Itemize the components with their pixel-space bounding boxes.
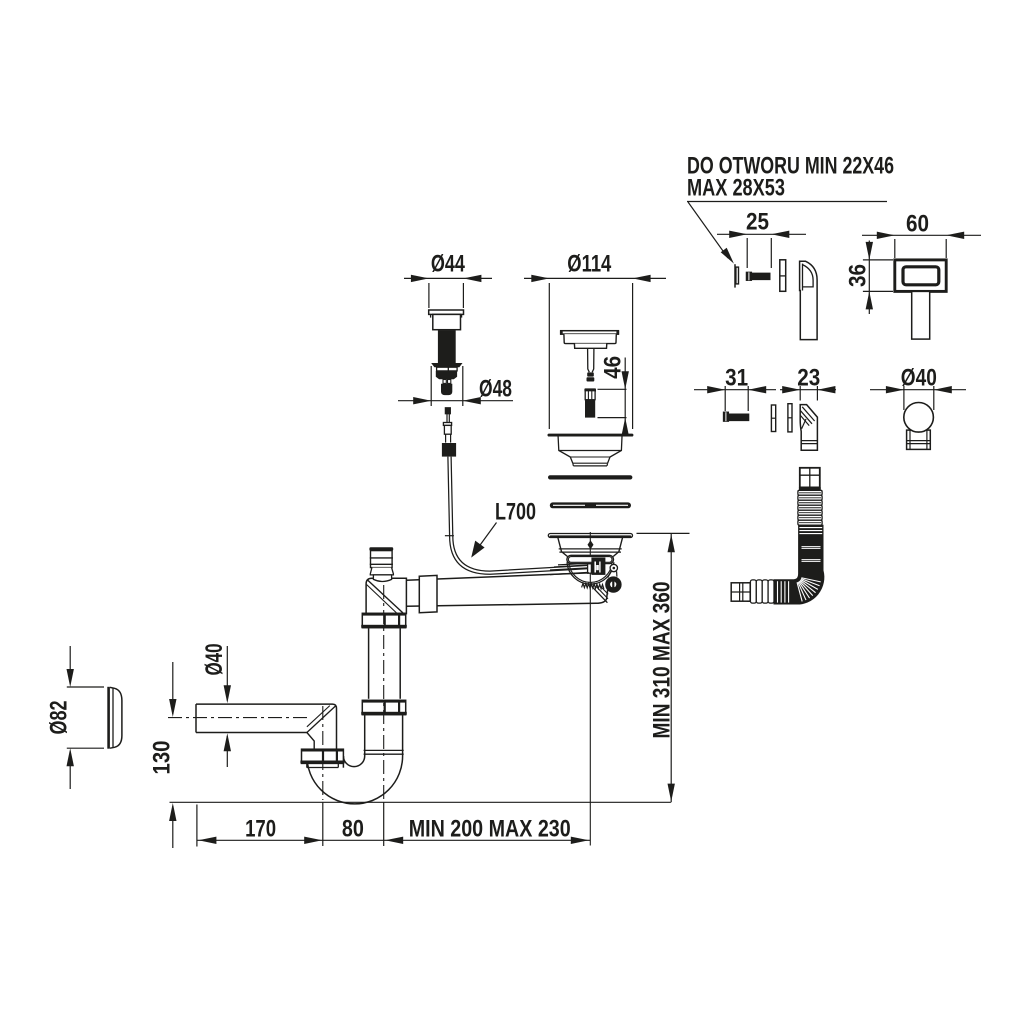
dimension Ø48 (knob flange) bbox=[398, 366, 513, 406]
svg-text:170: 170 bbox=[245, 815, 276, 842]
bevelled washer disc bbox=[550, 503, 630, 508]
strainer centreline bbox=[589, 532, 591, 846]
svg-text:46: 46 bbox=[600, 356, 627, 379]
overflow gasket plate bbox=[780, 260, 786, 292]
svg-text:Ø82: Ø82 bbox=[46, 701, 73, 735]
overflow elbow cover bbox=[800, 261, 818, 339]
upper elbow body bbox=[366, 578, 406, 613]
svg-text:31: 31 bbox=[725, 364, 748, 391]
overflow bezel (60x36) bbox=[895, 260, 946, 292]
strainer lower cup bbox=[567, 562, 614, 584]
svg-text:23: 23 bbox=[797, 364, 820, 391]
baseline bbox=[170, 801, 671, 803]
label L700 with leader arrow bbox=[471, 498, 536, 557]
cable end fitting below knob bbox=[442, 408, 456, 457]
dimension 46 (plug screw) bbox=[598, 356, 629, 436]
drain plug (exploded) bbox=[560, 330, 619, 381]
svg-text:MIN 310 MAX 360: MIN 310 MAX 360 bbox=[649, 582, 676, 739]
outlet pipe (tapered) bbox=[406, 573, 608, 606]
svg-text:Ø48: Ø48 bbox=[479, 376, 512, 403]
sealing plate bbox=[788, 404, 792, 432]
dimension MIN 310 MAX 360 bbox=[637, 533, 690, 802]
lever pivot bbox=[608, 564, 618, 577]
flexible corrugated overflow hose bbox=[731, 468, 824, 604]
svg-text:Ø44: Ø44 bbox=[431, 250, 465, 277]
leader line from note to overflow washer bbox=[687, 202, 887, 264]
svg-text:Ø40: Ø40 bbox=[201, 644, 228, 676]
note: DO OTWORU MIN 22X46 / MAX 28X53 bbox=[687, 153, 894, 202]
lower elbow cut + hatching bbox=[307, 706, 336, 733]
dimension Ø40 (hose end) bbox=[870, 364, 966, 410]
trap inlet nut bbox=[300, 749, 344, 767]
U-trap bend bbox=[307, 715, 404, 804]
strainer body (exploded) bbox=[548, 434, 634, 466]
dimension 36 (overflow bezel height) bbox=[845, 241, 894, 315]
lever ball knob bbox=[605, 576, 621, 592]
plug position diamond bbox=[588, 540, 594, 549]
overflow bolt bbox=[746, 272, 770, 280]
svg-text:L700: L700 bbox=[495, 498, 536, 525]
svg-text:Ø40: Ø40 bbox=[901, 364, 937, 391]
overflow bezel stem bbox=[912, 291, 930, 339]
lower coupling nut bbox=[361, 700, 407, 714]
svg-text:25: 25 bbox=[746, 209, 769, 236]
svg-text:MIN 200 MAX 230: MIN 200 MAX 230 bbox=[409, 815, 571, 842]
overflow hose elbow piece 23 bbox=[800, 405, 817, 451]
dishwasher inlet port bbox=[369, 547, 393, 581]
strainer bail bracket bbox=[567, 555, 614, 563]
trap centrelines extended bbox=[323, 585, 384, 846]
cable anchor block bbox=[588, 558, 606, 575]
upper coupling nut bbox=[361, 613, 407, 627]
flat gasket disc bbox=[549, 476, 632, 479]
bottom dimension line 170 / 80 / MIN 200 MAX 230 bbox=[197, 805, 590, 847]
hose outlet Ø40 (circle + sleeve) bbox=[904, 403, 934, 450]
plug screw 46 bbox=[584, 388, 596, 417]
overflow washer plate bbox=[735, 264, 739, 287]
dimension Ø44 (knob cap) bbox=[404, 250, 492, 308]
mounting screw 31 bbox=[724, 412, 749, 421]
svg-text:36: 36 bbox=[845, 264, 872, 287]
svg-text:MAX 28X53: MAX 28X53 bbox=[687, 175, 785, 202]
sink strainer flange (installed) bbox=[548, 534, 632, 557]
dimension Ø114 (strainer flange) bbox=[524, 250, 666, 429]
dimension 60 (overflow bezel width) bbox=[862, 210, 981, 258]
thin washer bbox=[771, 405, 775, 432]
serrated locknut bbox=[582, 583, 604, 589]
control knob assembly bbox=[429, 310, 464, 395]
wall pipe centreline bbox=[168, 717, 308, 719]
dimension Ø82 bbox=[46, 646, 105, 789]
dimension 130 bbox=[149, 662, 177, 848]
wall outlet pipe bbox=[196, 704, 337, 749]
dimension Ø40 (wall pipe) bbox=[201, 644, 231, 768]
pipe sleeve coupling bbox=[419, 575, 437, 612]
dimension 31 (screw) bbox=[694, 364, 776, 411]
svg-text:60: 60 bbox=[906, 210, 929, 237]
wall cover Ø82 bbox=[109, 687, 122, 749]
bowden cable L700 bbox=[445, 457, 589, 575]
dimension 23 (hose elbow) bbox=[780, 364, 836, 400]
vertical pipe upper section bbox=[369, 628, 401, 699]
svg-text:130: 130 bbox=[149, 741, 176, 775]
svg-text:80: 80 bbox=[342, 815, 364, 842]
pipe end cut hatching bbox=[592, 586, 609, 602]
dimension 25 (overflow bolt) bbox=[717, 209, 806, 269]
svg-text:Ø114: Ø114 bbox=[567, 250, 611, 277]
